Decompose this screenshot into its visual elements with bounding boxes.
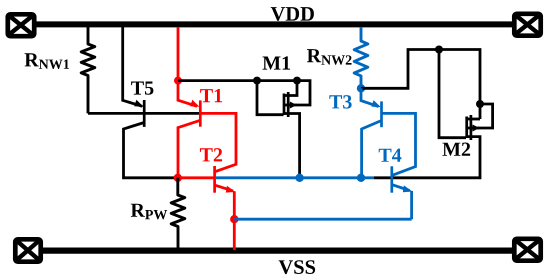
- transistor T4 (blue): [392, 166, 413, 219]
- resistor R_PW: [171, 178, 185, 250]
- wire blue bottom row: [234, 218, 411, 221]
- node dot blue T3 collector: [357, 174, 365, 182]
- label T1: [200, 89, 222, 102]
- pad VSS left: [15, 239, 40, 261]
- pad VDD right: [514, 14, 540, 36]
- pad VSS right: [514, 239, 540, 261]
- node dot M1 source: [293, 77, 301, 85]
- label R_NW1: [25, 53, 69, 69]
- label M1: [263, 56, 291, 69]
- VDD rail: [34, 21, 514, 27]
- node dot red bottom: [230, 215, 238, 223]
- wire T5 emitter from VDD: [123, 27, 143, 106]
- transistor T1: [178, 100, 236, 178]
- wire T1 emitter from VDD (red): [178, 27, 197, 106]
- label T5: [131, 82, 153, 95]
- transistor T2: [215, 166, 236, 250]
- wire M1 gate-source net: [178, 81, 310, 105]
- node dot red top: [174, 77, 182, 85]
- label T2: [200, 148, 222, 161]
- label R_NW2: [307, 49, 352, 65]
- pad VDD left: [8, 14, 34, 36]
- node dot M2 source: [476, 100, 484, 108]
- label M2: [442, 143, 470, 156]
- wire M1 gate lead: [257, 81, 284, 115]
- node dot M1 gate: [253, 77, 261, 85]
- node dot blue M1 drain: [295, 174, 303, 182]
- resistor R_NW2 (blue): [354, 27, 368, 88]
- label VSS: [279, 260, 316, 274]
- transistor M1: [284, 81, 300, 178]
- label R_PW: [131, 204, 167, 220]
- label T4: [379, 149, 402, 162]
- transistor M2: [374, 104, 493, 178]
- transistor T3 (blue): [361, 88, 416, 178]
- transistor T5: [124, 100, 177, 178]
- node dot blue top: [357, 84, 365, 92]
- wire blue node to M2 net: [361, 50, 480, 120]
- resistor R_NW1: [81, 27, 95, 113]
- wire node A: R_NW1 bottom to T5 base to T1 base: [88, 112, 199, 115]
- wire M2 gate lead: [439, 50, 466, 138]
- wire blue middle row: [216, 176, 374, 179]
- node dot red middle: [174, 174, 182, 182]
- label T3: [329, 95, 351, 108]
- node dot M2 gate: [435, 46, 443, 54]
- label VDD: [271, 7, 314, 21]
- wire red base link T2: [178, 176, 214, 179]
- VSS rail: [41, 247, 514, 253]
